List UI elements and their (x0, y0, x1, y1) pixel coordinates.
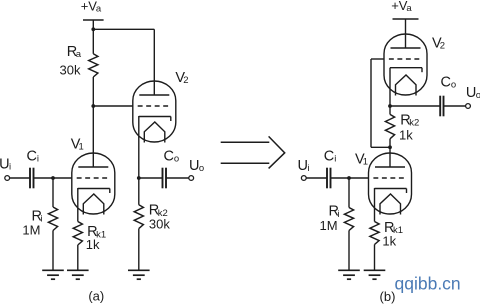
svg-text:(a): (a) (88, 289, 104, 304)
svg-text:C: C (164, 149, 174, 165)
svg-text:i: i (41, 214, 43, 225)
svg-text:1M: 1M (320, 218, 338, 233)
svg-text:i: i (334, 154, 336, 165)
svg-text:i: i (307, 163, 309, 174)
svg-text:o: o (451, 80, 456, 91)
svg-text:+V: +V (391, 0, 408, 13)
svg-text:1: 1 (363, 157, 368, 168)
svg-text:2: 2 (440, 41, 445, 52)
svg-text:o: o (476, 90, 480, 101)
svg-text:a: a (76, 49, 82, 60)
svg-text:(b): (b) (380, 289, 396, 304)
svg-text:30k: 30k (149, 216, 170, 231)
svg-text:o: o (174, 154, 179, 165)
svg-text:30k: 30k (60, 62, 81, 77)
svg-text:C: C (441, 75, 451, 91)
svg-text:1k: 1k (399, 128, 413, 143)
svg-text:o: o (199, 163, 204, 174)
svg-text:2: 2 (183, 75, 188, 86)
svg-text:1M: 1M (22, 223, 40, 238)
svg-text:+V: +V (81, 0, 98, 14)
svg-text:a: a (96, 4, 102, 15)
svg-text:i: i (37, 154, 39, 165)
svg-text:C: C (324, 148, 334, 164)
svg-text:1: 1 (79, 142, 84, 153)
svg-text:i: i (338, 209, 340, 220)
svg-text:1k: 1k (382, 233, 396, 248)
svg-text:i: i (9, 162, 11, 173)
svg-text:a: a (406, 3, 412, 14)
svg-text:qqibb.cn: qqibb.cn (395, 274, 461, 294)
svg-text:U: U (466, 85, 476, 101)
svg-text:1k: 1k (86, 237, 100, 252)
svg-text:C: C (27, 149, 37, 165)
